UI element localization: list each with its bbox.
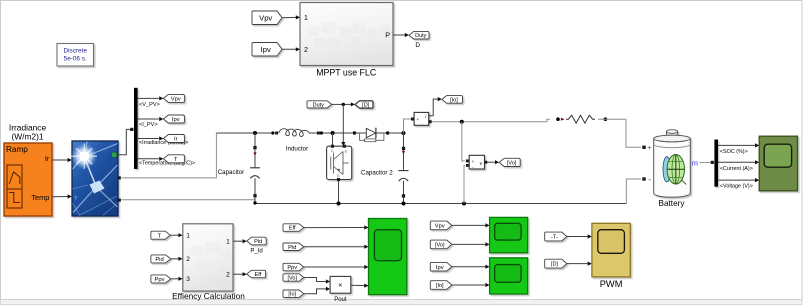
svg-text:D: D: [415, 42, 420, 49]
svg-text:Duty: Duty: [313, 102, 325, 108]
inductor L ports: [271, 131, 278, 134]
wire Ppv to scope: [304, 265, 369, 269]
bus selector (battery): [714, 140, 718, 187]
wire Ipv to scopeI: [452, 265, 490, 269]
svg-text:Capacitor: Capacitor: [218, 169, 244, 176]
wire rail to battery-: [626, 179, 641, 204]
from tag Duty (gate): [307, 101, 332, 109]
wire bus to Voltage: [718, 178, 759, 182]
wire Ramp Temp to PV: [52, 194, 72, 198]
svg-text:MPPT use FLC: MPPT use FLC: [316, 68, 377, 78]
from tag T (eff in): [151, 231, 170, 239]
wire PV- to capacitor node: [122, 199, 256, 201]
svg-text:Vpv: Vpv: [259, 13, 272, 22]
wire v-meter to Vo goto: [487, 160, 499, 164]
wire MPPT P to Duty goto: [393, 33, 409, 37]
label I_PV: [139, 122, 158, 128]
from tag D2: [545, 259, 567, 268]
wire Eff to scope: [304, 225, 369, 229]
svg-text:Pout: Pout: [334, 297, 347, 303]
wire duty down to gate: [341, 104, 345, 146]
from tag Ipv (MPPT input): [252, 43, 282, 57]
svg-text:P: P: [385, 31, 390, 40]
battery block: [654, 130, 691, 198]
node IGBT collector: [331, 131, 335, 135]
goto tag D: [355, 101, 373, 109]
goto tag Pid: [247, 237, 266, 254]
goto tag Io: [442, 96, 463, 104]
svg-text:(W/m2)1: (W/m2)1: [11, 132, 43, 142]
svg-text:<Voltage (V)>: <Voltage (V)>: [720, 184, 753, 190]
wire PV+ to rail: [122, 133, 217, 178]
from tag Vo3: [430, 240, 452, 249]
svg-text:[Vo]: [Vo]: [435, 242, 445, 248]
svg-text:<SOC (%)>: <SOC (%)>: [720, 149, 748, 155]
label SOC: [720, 149, 748, 155]
wire top rail left: [216, 132, 272, 134]
from tag Eff: [283, 224, 304, 232]
node capacitor top: [253, 131, 257, 135]
wire D to PWM: [567, 262, 592, 266]
from tag Ipv2: [430, 262, 452, 271]
svg-text:×: ×: [338, 281, 342, 290]
svg-text:<I_PV>: <I_PV>: [139, 122, 158, 128]
from tag Ppv (eff in): [151, 275, 171, 283]
wire product to scope: [351, 284, 369, 288]
svg-text:Duty: Duty: [415, 33, 427, 39]
wire bottom rail: [255, 203, 626, 205]
wire PV m to bus selector: [117, 128, 134, 155]
wire bus to T goto: [138, 158, 159, 160]
scope Battery (dark green): [759, 136, 797, 191]
svg-text:T: T: [157, 233, 161, 239]
scope PWM (tan): [592, 223, 630, 289]
bus selector (PV): [134, 88, 138, 169]
wire IGBT emitter down: [338, 181, 340, 203]
wire Pid to eff 2: [171, 257, 183, 261]
node C2 bottom: [402, 202, 406, 206]
wire Vo to scopeV: [452, 242, 490, 246]
label Irradiance bus: [139, 140, 188, 146]
svg-text:+: +: [647, 145, 651, 152]
svg-text:[Io]: [Io]: [450, 97, 458, 103]
wire T to eff 1: [170, 233, 182, 237]
svg-text:Eff: Eff: [254, 272, 261, 278]
bottom scrollbar strip: [1, 300, 803, 305]
node duty branch: [342, 103, 345, 106]
wire Vpv to MPPT port 1: [282, 15, 300, 19]
current measurement block: [411, 112, 432, 125]
svg-text:Ipv: Ipv: [436, 265, 444, 271]
wire IGBT collector up: [332, 133, 334, 145]
goto tag Ipv (bus out): [159, 115, 184, 123]
svg-text:Vpv: Vpv: [171, 96, 181, 102]
wire -T- to PWM: [567, 234, 592, 238]
wire i-meter signal to Io goto: [429, 97, 442, 116]
svg-text:Ppv: Ppv: [155, 277, 165, 283]
wire bus to Current: [718, 160, 759, 164]
label Capacitor 2: [361, 169, 393, 176]
svg-text:Ipv: Ipv: [172, 117, 180, 123]
label Irradiance (W/m2)1: [9, 123, 47, 142]
wire Ramp Ir to PV: [52, 158, 72, 162]
node C1 bottom: [253, 201, 256, 204]
svg-text:<V_PV>: <V_PV>: [139, 102, 160, 108]
svg-text:+: +: [416, 117, 419, 122]
product block Pout: [330, 276, 351, 303]
wire Ipv to MPPT port 2: [282, 47, 300, 51]
from tag Io3: [430, 281, 452, 290]
svg-text:Effiency Calculation: Effiency Calculation: [172, 291, 245, 301]
PV array block: [71, 141, 121, 216]
from tag Pid (eff in): [151, 255, 171, 263]
scope Voltage (green): [490, 217, 528, 252]
svg-text:2: 2: [186, 256, 190, 263]
diode D1: [353, 128, 390, 142]
from tag Vpv2: [430, 221, 452, 230]
svg-text:Temp: Temp: [31, 193, 49, 202]
svg-text:T: T: [174, 157, 178, 163]
svg-text:Discrete: Discrete: [63, 47, 87, 54]
svg-text:Eff: Eff: [289, 226, 296, 232]
powergui Discrete block: [57, 44, 94, 67]
svg-text:Ir: Ir: [174, 137, 178, 143]
svg-text:[D]: [D]: [551, 262, 559, 268]
svg-text:Ipv: Ipv: [261, 45, 271, 54]
IGBT Q1 block: [327, 145, 352, 181]
svg-text:Ir: Ir: [45, 154, 50, 163]
svg-text:Inductor: Inductor: [286, 146, 308, 153]
from tag -T-: [545, 232, 567, 241]
wire Duty to D goto: [332, 102, 355, 106]
node Vo- bottom: [462, 202, 466, 206]
wire diode to output node: [388, 132, 404, 134]
wire Io to product: [304, 287, 330, 294]
scope Current (green): [490, 258, 528, 294]
svg-text:Pid: Pid: [254, 239, 262, 245]
svg-text:PWM: PWM: [600, 279, 623, 289]
wire node to v-meter +: [462, 122, 465, 161]
svg-text:1: 1: [304, 15, 308, 22]
node Vo branch: [460, 120, 464, 124]
from tag Io2: [283, 290, 304, 298]
svg-text:-T-: -T-: [551, 235, 558, 241]
capacitor C1 branch: [250, 133, 260, 204]
voltage measurement block: [466, 155, 487, 169]
wire i-meter out: [432, 119, 550, 122]
label Temperature bus: [139, 161, 195, 167]
svg-text:1: 1: [186, 233, 190, 240]
wire bus to Ir goto: [138, 138, 159, 140]
goto tag Eff: [247, 270, 266, 278]
node emitter bottom: [337, 202, 341, 206]
svg-text:[D]: [D]: [362, 102, 370, 108]
wire Vpv to scopeV: [452, 223, 490, 227]
wire node to i-meter: [404, 119, 412, 133]
label Battery: [659, 199, 686, 208]
svg-text:[Vo]: [Vo]: [507, 160, 517, 166]
svg-text:i: i: [77, 159, 78, 164]
from tag Vo2: [283, 274, 304, 282]
svg-text:Ppv: Ppv: [287, 265, 297, 271]
svg-text:2: 2: [226, 272, 230, 279]
inductor L coil: [279, 129, 310, 137]
svg-text:1: 1: [226, 239, 230, 246]
svg-text:P_Id: P_Id: [250, 249, 262, 255]
svg-text:m: m: [692, 159, 698, 168]
wire eff out2 to Eff goto: [233, 272, 247, 276]
wire Ppv to eff 3: [171, 277, 183, 281]
wire bus to Ipv goto: [138, 118, 159, 120]
svg-text:<Current (A)>: <Current (A)>: [720, 166, 753, 172]
wire Io to scopeI: [452, 283, 490, 287]
svg-text:2: 2: [304, 47, 308, 54]
svg-text:3: 3: [186, 276, 190, 283]
svg-text:g: g: [345, 149, 347, 153]
label Current: [720, 166, 753, 172]
svg-text:[Vo]: [Vo]: [288, 275, 298, 281]
goto tag Vpv (bus out): [159, 94, 184, 102]
battery + port: [642, 145, 651, 152]
battery - port: [642, 175, 651, 184]
wire resistor to battery+: [598, 119, 641, 147]
subsystem U_MPPT (MPPT use FLC): [300, 3, 393, 78]
scope Power (big green): [369, 219, 407, 295]
from tag Ppv2: [283, 263, 304, 271]
svg-text:Vpv: Vpv: [435, 223, 445, 229]
svg-text:[Io]: [Io]: [288, 292, 296, 298]
wire eff out1 to Pid goto: [233, 239, 247, 243]
resistor R1: [556, 115, 607, 123]
goto tag T (bus out): [159, 155, 184, 163]
svg-text:Battery: Battery: [659, 199, 686, 208]
wire bus to SOC: [718, 143, 759, 147]
capacitor C2 branch: [399, 133, 409, 204]
svg-text:Pid: Pid: [155, 257, 163, 263]
label Capacitor: [218, 169, 244, 176]
node output top: [402, 131, 406, 135]
goto tag Duty: [409, 31, 429, 48]
svg-text:[Io]: [Io]: [436, 283, 444, 289]
wire Vo to product: [304, 278, 330, 284]
battery m output: [692, 159, 714, 168]
source block Ramp (Irradiance): [4, 143, 52, 216]
svg-text:-: -: [648, 175, 651, 184]
from tag Vpv (MPPT input): [252, 11, 282, 25]
label V_PV: [139, 102, 160, 108]
goto tag Ir (bus out): [159, 135, 184, 143]
label Voltage: [720, 184, 753, 190]
svg-text:5e-06 s.: 5e-06 s.: [64, 55, 87, 62]
goto tag Vo: [499, 158, 520, 166]
svg-text:C: C: [331, 149, 334, 153]
from tag Pid2: [283, 243, 304, 251]
svg-text:+: +: [472, 159, 475, 164]
wire Pid to scope: [304, 245, 369, 249]
svg-text:Pid: Pid: [288, 245, 296, 251]
subsystem Effiency Calculation: [172, 224, 245, 301]
svg-text:T: T: [75, 196, 78, 201]
svg-text:Capacitor 2: Capacitor 2: [361, 169, 393, 176]
svg-text:Ramp: Ramp: [6, 145, 28, 154]
wire rail inductor to diode: [310, 131, 354, 134]
wire bus to Vpv goto: [138, 97, 159, 99]
label Inductor: [286, 146, 308, 153]
wire v-meter - to rail: [464, 165, 465, 203]
